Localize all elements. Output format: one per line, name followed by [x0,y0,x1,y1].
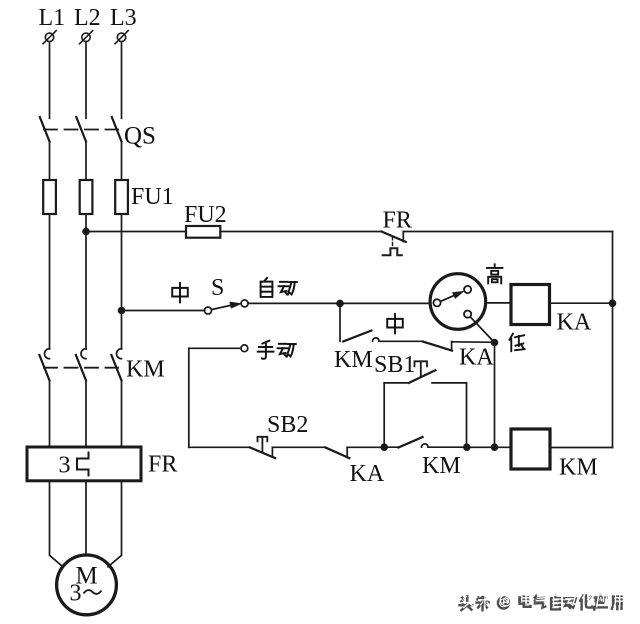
CJK labels main diagram [172,264,524,358]
SB1 branch right vertical [466,383,468,447]
svg-text:FR: FR [383,208,412,234]
selector switch S [205,300,249,314]
watermark 头条@电气自动化应用 [459,592,623,610]
svg-text:S: S [211,275,224,301]
svg-text:3: 3 [70,581,82,607]
relay coil KA [511,285,550,325]
contactor KM main pole 3 [111,349,121,381]
node D junction [463,443,471,451]
wire SB2 to KA contact [272,446,325,448]
wire selector low pin to node B [470,317,494,343]
contactor KM main pole 2 [76,349,86,381]
svg-text:KM: KM [559,455,598,481]
label 自动 [261,278,273,297]
terminal L1 [43,31,56,44]
SB1 branch left vertical [383,383,385,447]
node KA / right rail [609,300,617,308]
contact KA (bottom row) [325,447,349,458]
switch QS pole 3 blade [112,117,122,142]
wire S to node A [248,302,340,304]
wire manual terminal left and down [189,348,241,447]
svg-text:KM: KM [126,356,165,382]
thermal relay FR NC contact [382,232,406,256]
wire node B down to bottom row [494,343,496,448]
wire FU2 to FR contact [220,231,381,233]
wire node L3 to switch S [122,310,205,312]
wire FR contact to right rail [403,231,612,233]
contact KA aux (middle branch) [423,342,495,351]
svg-text:KA: KA [459,345,494,371]
selector pin high [464,286,471,293]
svg-text:SB1: SB1 [374,352,415,378]
svg-text:KM: KM [334,347,373,373]
contactor KM main pole 1 [39,349,49,381]
wire node A down to KM aux contact [339,303,341,341]
wire FR box to motor (pole2) [85,481,87,555]
wire QS pole2 to FU1 [85,142,87,181]
svg-text:L1: L1 [39,5,66,31]
svg-text:KA: KA [557,310,592,336]
wire QS pole1 to FU1 [49,142,51,181]
label 低 [509,334,524,352]
label 中 (KM branch) [387,314,403,333]
wire FU1 pole2 to KM [85,214,87,349]
motor tilde [84,590,102,594]
manual terminal circle [241,345,248,352]
node E junction [491,443,499,451]
svg-text:FU2: FU2 [184,202,227,228]
label 高 [487,264,503,283]
wire node A to speed selector [340,302,430,304]
terminal L2 [80,31,93,44]
switch QS pole 2 blade [76,117,86,142]
selector pin left [433,299,440,306]
node C junction [380,443,388,451]
svg-text:KM: KM [422,453,461,479]
selector pin low [464,311,471,318]
node junction L3 / S wire [118,307,126,315]
wire QS pole3 to FU1 [121,142,123,181]
wire KA coil to right rail [550,302,613,304]
svg-text:3: 3 [59,452,71,478]
fuse FU2 [186,226,220,238]
speed selector switch circle [430,274,486,330]
SB1 branch top wire right [432,382,467,384]
QS linkage dashed line [44,129,118,131]
selector arrow [441,291,464,301]
label 中 (S row) [172,283,188,302]
svg-text:L2: L2 [74,5,101,31]
node B junction (low) [491,339,499,347]
svg-text:QS: QS [124,123,156,150]
wire L3 down to QS [121,42,123,119]
control top wire from L2 node to FU2 [86,231,186,233]
fuse FU1 pole 3 [115,180,128,214]
bottom wire left segment [189,446,250,448]
svg-text:KA: KA [350,461,385,487]
label 手动 [258,341,274,359]
motor M circle [57,555,117,615]
contactor coil KM [511,429,550,469]
contact KM aux (self hold) [384,437,467,448]
node junction L2 / control wire [82,228,90,236]
pushbutton SB1 branch top wire left [384,382,409,384]
wire FU1 pole3 to KM [121,214,123,349]
wire node D to node E [467,446,495,448]
fuse FU1 pole 1 [43,180,56,214]
wire KM coil to right rail [550,447,613,449]
wire FR box to motor (pole1) [50,481,64,567]
KM linkage dashed line [44,367,118,369]
wire KA contact to node C [347,446,384,448]
contact KM aux (middle speed) [343,331,423,342]
wire FU1 pole1 to KM [49,214,51,349]
thermal relay FR heater box [27,447,141,481]
wire KM pole2 to FR box [85,381,87,448]
svg-text:SB2: SB2 [267,412,308,438]
switch QS pole 1 blade [40,117,50,142]
pushbutton SB1 [409,361,436,383]
wire KM pole1 to FR box [49,381,51,448]
wire L2 down to QS [85,42,87,119]
fuse FU1 pole 2 [80,180,93,214]
FR heater symbol [77,453,89,476]
wire KM pole3 to FR box [121,381,123,448]
wire node E to KM coil [495,446,512,448]
wire L1 down to QS [49,42,51,119]
svg-text:L3: L3 [110,5,137,31]
svg-text:FU1: FU1 [131,184,174,210]
node A junction [336,300,344,308]
wire selector to KA coil [486,302,511,304]
terminal L3 [115,31,128,44]
right rail vertical wire [612,232,614,448]
pushbutton SB2 (NC) [250,437,275,458]
svg-text:FR: FR [148,452,177,478]
wire FR box to motor (pole3) [108,481,122,567]
